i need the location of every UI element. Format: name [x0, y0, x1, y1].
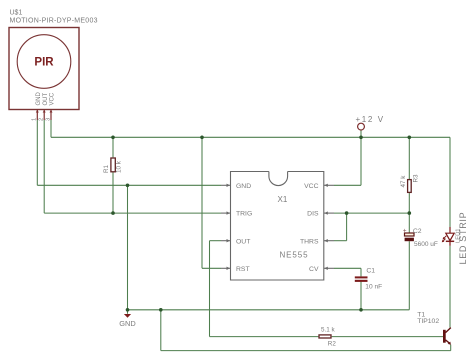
wire emitter stub: [450, 345, 452, 351]
wire supply stub: [360, 130, 362, 137]
wire VCC pin net: [334, 137, 361, 185]
wire C1 bottom to GND row: [360, 282, 362, 310]
wire RST net vertical: [201, 137, 203, 268]
wire R3 top lead: [408, 137, 410, 179]
IC X1 pin RST: [221, 266, 250, 273]
PIR pin 1 stub: [36, 110, 39, 121]
wire PIR pin2 to TRIG row: [43, 120, 45, 213]
LED LED1: [442, 212, 468, 265]
wire +12V rail: [51, 136, 450, 138]
PIR pin name GND: [36, 92, 42, 106]
wire R2 to base: [332, 336, 444, 338]
node junction GND symbol: [126, 308, 130, 312]
PIR pin 3 stub: [50, 110, 53, 121]
IC X1 pin THRS: [300, 238, 334, 245]
wire R1 bottom lead: [112, 172, 114, 213]
svg-text:C2: C2: [413, 228, 422, 235]
node junction emitter return: [159, 308, 163, 312]
wire OUT pin to vertical: [210, 240, 222, 242]
resistor R1: [103, 158, 123, 173]
capacitor C1: [355, 268, 382, 291]
svg-text:NE555: NE555: [280, 250, 309, 259]
wire LED column top: [449, 137, 451, 227]
wire CV net: [334, 268, 361, 276]
wire OUT vertical: [209, 241, 211, 337]
svg-text:OUT: OUT: [236, 238, 250, 245]
svg-text:10 nF: 10 nF: [365, 284, 382, 291]
PIR pin number 2: [39, 118, 45, 121]
resistor R3: [400, 174, 420, 192]
+12V supply symbol: [356, 115, 385, 130]
svg-text:R3: R3: [412, 174, 419, 183]
resistor R2: [319, 327, 336, 348]
transistor T1 TIP102: [417, 312, 451, 345]
svg-text:DIS: DIS: [307, 211, 319, 218]
svg-text:RST: RST: [236, 266, 250, 273]
wire C2 bottom to GND row: [408, 241, 410, 310]
svg-text:C1: C1: [366, 268, 375, 275]
node junction supply on rail: [359, 136, 363, 140]
wire DIS junction to C2 top: [408, 213, 410, 233]
node junction C1 bottom: [359, 308, 363, 312]
PIR pin name OUT: [43, 93, 49, 106]
IC X1 pin OUT: [221, 238, 250, 245]
IC X1 pin CV: [309, 266, 334, 273]
IC X1 NE555 body: [231, 172, 324, 281]
svg-text:OUT: OUT: [43, 93, 49, 106]
wire LED bottom to collector: [449, 246, 451, 328]
node junction R1 top on rail: [111, 136, 115, 140]
svg-text:LED STRIP: LED STRIP: [458, 212, 468, 265]
IC X1 pin GND: [221, 183, 251, 190]
PIR pin number 3: [45, 118, 51, 121]
capacitor C2: [403, 228, 438, 248]
node junction R3 top on rail: [408, 136, 412, 140]
ground symbol GND: [119, 310, 135, 328]
svg-text:5.1 k: 5.1 k: [321, 327, 336, 334]
wire R3 bottom lead: [408, 193, 410, 213]
wire emitter return bottom row: [161, 350, 451, 352]
svg-text:R2: R2: [328, 341, 337, 348]
svg-text:+: +: [403, 228, 407, 235]
node junction R3 bottom on DIS row: [408, 211, 412, 215]
svg-text:CV: CV: [309, 266, 319, 273]
svg-text:VCC: VCC: [304, 183, 318, 190]
wire GND column: [127, 185, 129, 309]
svg-text:5600 uF: 5600 uF: [414, 241, 438, 248]
wire DIS row: [334, 212, 409, 214]
IC X1 pin DIS: [307, 211, 334, 218]
wire OUT row to R2: [210, 336, 319, 338]
wire RST net horizontal: [202, 267, 221, 269]
node junction GND row: [126, 184, 130, 188]
svg-text:R1: R1: [103, 164, 110, 173]
svg-text:+12 V: +12 V: [356, 115, 385, 124]
node junction RST on rail: [200, 136, 204, 140]
node junction THRS on DIS row: [345, 211, 349, 215]
IC X1 pin VCC: [304, 183, 334, 190]
wire THRS to DIS: [334, 213, 347, 241]
svg-text:U$1: U$1: [10, 10, 23, 17]
PIR pin 2 stub: [43, 110, 46, 121]
svg-text:GND: GND: [236, 183, 251, 190]
svg-text:10 k: 10 k: [116, 160, 123, 173]
PIR sensor U$1 name label: [10, 10, 98, 25]
svg-text:THRS: THRS: [300, 238, 319, 245]
node junction R1 bottom on TRIG row: [111, 211, 115, 215]
wire PIR pin1 to GND row: [36, 120, 38, 185]
svg-text:TRIG: TRIG: [236, 211, 252, 218]
wire GND row PIR to IC: [37, 184, 221, 186]
PIR pin name VCC: [50, 92, 56, 105]
wire PIR pin3 to +12V rail: [50, 120, 52, 137]
svg-text:47 k: 47 k: [400, 175, 407, 188]
wire emitter return vertical: [160, 310, 162, 351]
svg-text:VCC: VCC: [50, 92, 56, 105]
svg-text:MOTION-PIR-DYP-ME003: MOTION-PIR-DYP-ME003: [10, 18, 98, 25]
svg-text:GND: GND: [119, 319, 135, 328]
svg-text:X1: X1: [278, 195, 288, 204]
PIR pin number 1: [32, 118, 38, 121]
PIR sensor U$1 body: [9, 28, 79, 110]
wire TRIG row PIR to IC: [44, 212, 221, 214]
svg-text:TIP102: TIP102: [417, 318, 439, 325]
wire bottom GND row: [128, 309, 410, 311]
svg-text:GND: GND: [36, 92, 42, 106]
wire R1 top lead: [112, 137, 114, 157]
IC X1 pin TRIG: [221, 211, 252, 218]
svg-text:PIR: PIR: [34, 57, 54, 69]
